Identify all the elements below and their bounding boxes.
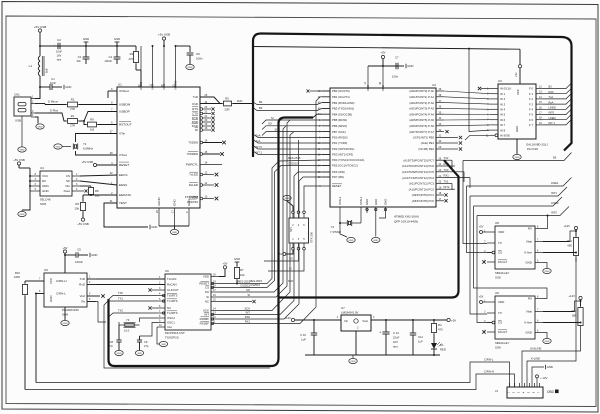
svg-text:GND: GND	[91, 253, 97, 257]
svg-text:IN 8: IN 8	[500, 128, 506, 132]
svg-text:F 7: F 7	[529, 123, 533, 127]
svg-text:C6: C6	[196, 52, 200, 56]
svg-text:CS: CS	[66, 174, 70, 178]
svg-text:LINE0: LINE0	[551, 201, 559, 205]
svg-text:LIN0D: LIN0D	[549, 106, 556, 110]
svg-text:INT 1: INT 1	[549, 121, 556, 125]
svg-text:AGND: AGND	[157, 196, 161, 206]
svg-text:GND: GND	[161, 344, 166, 346]
svg-text:+5v USB: +5v USB	[158, 33, 170, 37]
svg-text:CTS: CTS	[192, 112, 198, 116]
svg-text:16V: 16V	[57, 54, 62, 58]
svg-text:GND: GND	[114, 37, 120, 41]
svg-text:LINE1: LINE1	[551, 181, 559, 185]
svg-text:SO: SO	[246, 288, 250, 292]
svg-text:IN 6: IN 6	[500, 118, 506, 122]
svg-text:GND: GND	[38, 127, 43, 129]
svg-text:R1: R1	[71, 114, 75, 118]
svg-text:Y2: Y2	[331, 225, 335, 229]
svg-text:+5V: +5V	[278, 252, 283, 256]
svg-text:CS2515: CS2515	[240, 284, 250, 288]
svg-text:RX1BF: RX1BF	[200, 322, 210, 326]
svg-text:TX2: TX2	[118, 309, 123, 313]
svg-text:PD3 (INT1/ICP3): PD3 (INT1/ICP3)	[332, 153, 353, 157]
svg-text:VCC: VCC	[516, 89, 520, 95]
svg-text:93LC46: 93LC46	[40, 198, 51, 202]
svg-text:INT0: INT0	[551, 211, 557, 215]
svg-text:K-LINE: K-LINE	[531, 357, 540, 361]
svg-text:GND: GND	[151, 225, 157, 229]
svg-text:R9: R9	[90, 118, 94, 122]
svg-text:XTAL2: XTAL2	[338, 196, 342, 205]
svg-text:STK-200: STK-200	[310, 232, 314, 243]
svg-text:Tx2RTS: Tx2RTS	[167, 311, 178, 315]
svg-text:C7: C7	[395, 56, 399, 60]
svg-text:RESET: RESET	[119, 163, 129, 167]
svg-text:USBDP: USBDP	[119, 110, 130, 114]
svg-text:INT: INT	[204, 313, 209, 317]
svg-text:RxA: RxA	[549, 100, 554, 104]
svg-text:2k2: 2k2	[95, 194, 100, 198]
svg-text:CS2515: CS2515	[288, 162, 298, 166]
svg-text:R10: R10	[15, 271, 21, 275]
svg-text:GND: GND	[65, 85, 71, 89]
svg-text:XTout: XTout	[119, 153, 127, 157]
svg-text:Din: Din	[65, 184, 70, 188]
svg-text:GND: GND	[545, 341, 550, 343]
svg-text:F 2: F 2	[529, 97, 533, 101]
svg-text:(A14/TDO/PCINT14) PC6: (A14/TDO/PCINT14) PC6	[402, 164, 434, 168]
svg-text:tant: tant	[57, 58, 62, 62]
svg-text:TX2: TX2	[444, 156, 449, 160]
svg-text:(A15/TDI/PCINT15) PC7: (A15/TDI/PCINT15) PC7	[403, 158, 434, 162]
svg-text:+12V: +12V	[568, 294, 575, 298]
svg-text:R6: R6	[75, 202, 79, 206]
svg-text:R5: R5	[225, 97, 229, 101]
svg-text:GND: GND	[42, 189, 50, 193]
svg-text:EECS: EECS	[119, 173, 127, 177]
svg-text:RESET: RESET	[332, 184, 342, 188]
svg-text:Y3: Y3	[126, 318, 130, 322]
svg-text:3V3out: 3V3out	[119, 89, 129, 93]
svg-text:QFP 10X10-44(N): QFP 10X10-44(N)	[394, 220, 418, 224]
svg-text:Dout: Dout	[64, 189, 71, 193]
svg-text:100n: 100n	[392, 75, 399, 79]
svg-text:10k: 10k	[240, 273, 245, 277]
svg-text:(A13/TMS/PCINT13) PC5: (A13/TMS/PCINT13) PC5	[402, 170, 434, 174]
svg-text:tant: tant	[393, 345, 398, 349]
svg-text:R7: R7	[240, 268, 244, 272]
svg-text:(AD7/PCINT7) P A7: (AD7/PCINT7) P A7	[409, 130, 434, 134]
svg-text:U1: U1	[118, 83, 122, 87]
svg-text:D1: D1	[440, 343, 444, 347]
svg-text:SO: SO	[289, 257, 293, 261]
svg-text:D Minus: D Minus	[48, 100, 59, 104]
svg-text:Vout: Vout	[362, 319, 368, 323]
svg-text:PWREN: PWREN	[187, 152, 198, 156]
svg-text:LIN/LINE: LIN/LINE	[530, 347, 541, 351]
svg-text:PB2 (RXD1/AIN0): PB2 (RXD1/AIN0)	[332, 101, 354, 105]
svg-text:PWRCTL: PWRCTL	[186, 163, 199, 167]
svg-text:SI: SI	[206, 295, 209, 299]
svg-text:EESK: EESK	[119, 183, 128, 187]
svg-text:100nF: 100nF	[75, 260, 83, 264]
svg-text:TSSOP20: TSSOP20	[165, 336, 179, 340]
svg-text:120R: 120R	[14, 275, 20, 279]
svg-text:RX0BF: RX0BF	[200, 317, 210, 321]
svg-text:TEST: TEST	[119, 201, 127, 205]
svg-text:CN1: CN1	[14, 93, 20, 97]
svg-text:33n: 33n	[77, 59, 82, 63]
svg-text:(AD0/PCINT0) P A0: (AD0/PCINT0) P A0	[409, 89, 434, 93]
svg-text:SO8: SO8	[495, 276, 501, 280]
svg-text:Vin: Vin	[344, 319, 349, 323]
svg-text:16V: 16V	[393, 340, 398, 344]
svg-text:ORG: ORG	[42, 184, 50, 188]
svg-text:GND: GND	[20, 150, 25, 152]
svg-text:470: 470	[438, 328, 443, 332]
svg-text:(AD4/PCINT4) P A4: (AD4/PCINT4) P A4	[409, 112, 434, 116]
svg-text:OSC1: OSC1	[167, 321, 175, 325]
svg-text:C1: C1	[51, 77, 55, 81]
svg-text:U4: U4	[40, 166, 44, 170]
svg-text:LM2940-5.0V: LM2940-5.0V	[341, 311, 358, 315]
svg-text:U7: U7	[341, 306, 345, 310]
svg-text:Vbat: Vbat	[526, 240, 532, 244]
svg-text:CS: CS	[498, 251, 502, 255]
svg-text:GND: GND	[234, 257, 240, 261]
svg-text:XTin: XTin	[119, 132, 126, 136]
svg-text:IN 3: IN 3	[500, 102, 506, 106]
svg-text:MCP2515-I/ST: MCP2515-I/ST	[165, 331, 185, 335]
svg-text:RTS: RTS	[192, 107, 198, 111]
svg-text:GND: GND	[188, 67, 193, 69]
svg-text:F 6: F 6	[529, 118, 533, 122]
svg-text:(OC1B) PE2: (OC1B) PE2	[418, 147, 434, 151]
svg-text:PD1 (TXD0): PD1 (TXD0)	[332, 141, 347, 145]
svg-text:GND: GND	[20, 214, 25, 216]
svg-text:RxA: RxA	[256, 134, 261, 138]
svg-text:GAL16V8D-15LJ: GAL16V8D-15LJ	[526, 143, 548, 147]
svg-text:RX1: RX1	[245, 320, 251, 324]
svg-text:TxLED: TxLED	[189, 173, 198, 177]
svg-text:+5V USB: +5V USB	[34, 25, 46, 29]
svg-text:6u8: 6u8	[45, 68, 49, 73]
svg-text:C2: C2	[57, 38, 61, 42]
svg-text:SI: SI	[271, 116, 274, 120]
svg-text:TX: TX	[498, 311, 502, 315]
svg-text:GND: GND	[285, 198, 290, 200]
svg-text:Tx0RTS: Tx0RTS	[167, 294, 178, 298]
svg-text:PD4 (TOSC1/XCK/OC3A): PD4 (TOSC1/XCK/OC3A)	[332, 158, 364, 162]
svg-text:C5: C5	[77, 248, 81, 252]
svg-text:L1: L1	[29, 64, 33, 68]
svg-text:22R: 22R	[224, 108, 229, 112]
svg-text:U3: U3	[498, 79, 502, 83]
svg-text:B3: B3	[553, 156, 557, 160]
svg-text:27p: 27p	[109, 344, 114, 348]
svg-text:U2: U2	[432, 83, 436, 87]
svg-text:Tx1RTS: Tx1RTS	[167, 299, 178, 303]
svg-text:J1: J1	[495, 389, 499, 393]
svg-text:PD5 (OC1A/TOSC2): PD5 (OC1A/TOSC2)	[332, 164, 358, 168]
svg-text:INT0: INT0	[549, 111, 555, 115]
svg-text:VDD: VDD	[498, 300, 505, 304]
svg-text:GND: GND	[525, 331, 533, 335]
svg-text:OBD: OBD	[547, 390, 555, 394]
svg-text:K-line: K-line	[524, 321, 532, 325]
svg-text:USBDM: USBDM	[119, 103, 131, 107]
svg-text:F 0: F 0	[529, 87, 533, 91]
svg-text:PD0 (RXD0): PD0 (RXD0)	[332, 136, 348, 140]
svg-text:NC: NC	[205, 300, 209, 304]
svg-text:NC: NC	[167, 306, 171, 310]
svg-text:(AD6/PCINT6) P A6: (AD6/PCINT6) P A6	[409, 124, 434, 128]
svg-text:IN 7: IN 7	[500, 123, 506, 127]
svg-text:F 1: F 1	[529, 92, 533, 96]
svg-text:LINE0: LINE0	[549, 116, 557, 120]
svg-text:SI: SI	[247, 293, 250, 297]
svg-text:TX0: TX0	[118, 291, 123, 295]
svg-text:GND: GND	[525, 261, 533, 265]
svg-text:TxA: TxA	[256, 139, 261, 143]
svg-text:CS: CS	[498, 321, 502, 325]
svg-text:SB2411-EY: SB2411-EY	[495, 341, 510, 345]
svg-text:+5V USB: +5V USB	[81, 160, 93, 164]
svg-text:USB: USB	[15, 119, 21, 123]
svg-text:RxD: RxD	[79, 283, 86, 287]
svg-text:CS2515: CS2515	[250, 283, 260, 287]
svg-text:22uF: 22uF	[393, 336, 400, 340]
svg-text:+5V USB: +5V USB	[13, 158, 25, 162]
svg-text:IN 5: IN 5	[500, 113, 506, 117]
svg-text:RX1: RX1	[444, 174, 450, 178]
svg-text:(AD1/PCINT1) P A1: (AD1/PCINT1) P A1	[409, 95, 434, 99]
svg-text:27p: 27p	[144, 344, 149, 348]
svg-text:INT: INT	[246, 311, 251, 315]
svg-text:F 4: F 4	[529, 108, 533, 112]
svg-text:GND: GND	[83, 37, 89, 41]
svg-text:C 10: C 10	[300, 333, 306, 337]
svg-text:10k: 10k	[74, 207, 79, 211]
svg-text:R4: R4	[438, 323, 442, 327]
svg-text:1uF: 1uF	[301, 338, 306, 342]
svg-text:SI: SI	[289, 267, 292, 271]
svg-text:GND: GND	[545, 271, 550, 273]
svg-text:INT1: INT1	[551, 191, 557, 195]
svg-text:RxD: RxD	[549, 90, 554, 94]
svg-text:TxCAN: TxCAN	[167, 277, 176, 281]
svg-text:C/RN-L: C/RN-L	[56, 292, 66, 296]
svg-text:Y1: Y1	[83, 142, 87, 146]
svg-text:C/RN-L: C/RN-L	[484, 358, 494, 362]
svg-text:GND: GND	[351, 361, 356, 363]
svg-text:GND: GND	[49, 296, 53, 302]
svg-text:SO8: SO8	[40, 202, 46, 206]
svg-text:GND: GND	[63, 323, 68, 325]
svg-text:(ICP1/INT2) PE0: (ICP1/INT2) PE0	[413, 136, 434, 140]
svg-text:SCK: SCK	[275, 127, 281, 131]
svg-text:GND: GND	[173, 199, 177, 207]
svg-text:IN 9/OE: IN 9/OE	[500, 134, 510, 138]
svg-text:RI: RI	[195, 128, 198, 132]
svg-text:D Plus: D Plus	[50, 109, 59, 113]
svg-text:GND: GND	[515, 126, 519, 132]
svg-text:+5V: +5V	[380, 51, 385, 55]
svg-text:C11: C11	[418, 335, 423, 339]
svg-text:C/RN-H: C/RN-H	[484, 370, 494, 374]
svg-text:RxD: RxD	[237, 99, 242, 103]
svg-text:VDD: VDD	[498, 230, 505, 234]
svg-text:IN 1: IN 1	[500, 92, 506, 96]
svg-text:(ALE) PE1: (ALE) PE1	[421, 141, 435, 145]
svg-text:10uF: 10uF	[56, 50, 62, 54]
svg-text:FAULT: FAULT	[498, 330, 507, 334]
svg-text:RxD: RxD	[192, 102, 198, 106]
svg-text:SK: SK	[66, 179, 70, 183]
svg-text:RES-2515: RES-2515	[238, 280, 251, 284]
svg-text:RES-2515: RES-2515	[250, 279, 263, 283]
svg-text:PB0 (OC0/T0): PB0 (OC0/T0)	[332, 89, 350, 93]
svg-text:C3: C3	[78, 55, 82, 59]
svg-text:PD2 (INT0/RXD1): PD2 (INT0/RXD1)	[332, 147, 354, 151]
svg-text:+5v: +5v	[514, 72, 518, 77]
svg-text:R8: R8	[95, 189, 99, 193]
svg-text:GND: GND	[365, 199, 369, 205]
svg-text:(A11/PCINT11) PC3: (A11/PCINT11) PC3	[409, 182, 434, 186]
svg-text:K-line: K-line	[524, 251, 532, 255]
svg-text:OSC2: OSC2	[167, 316, 175, 320]
svg-text:TxD: TxD	[80, 277, 86, 281]
svg-text:Vbat: Vbat	[526, 310, 532, 314]
svg-text:RxCAN: RxCAN	[167, 283, 177, 287]
svg-text:+5V: +5V	[451, 319, 456, 323]
svg-text:TX0: TX0	[444, 168, 449, 172]
svg-text:PD7 (RD): PD7 (RD)	[332, 175, 344, 179]
svg-text:GND: GND	[117, 353, 122, 355]
svg-text:TxA: TxA	[549, 95, 554, 99]
svg-text:(AD2/PCINT2) P A2: (AD2/PCINT2) P A2	[409, 101, 434, 105]
svg-text:U5: U5	[44, 268, 48, 272]
svg-text:CLKOUT: CLKOUT	[167, 288, 179, 292]
svg-text:C 12: C 12	[393, 331, 399, 335]
svg-text:U8: U8	[495, 221, 499, 225]
svg-text:GND: GND	[407, 64, 413, 68]
svg-text:EEDATA: EEDATA	[119, 193, 132, 197]
svg-text:VCC: VCC	[42, 174, 49, 178]
svg-text:F 5: F 5	[529, 113, 533, 117]
svg-text:680: 680	[572, 314, 577, 318]
svg-text:TX1: TX1	[444, 179, 449, 183]
svg-text:INT2: INT2	[444, 185, 450, 189]
svg-text:R2: R2	[71, 97, 75, 101]
svg-text:TX1: TX1	[118, 297, 123, 301]
svg-text:GND: GND	[187, 199, 191, 207]
svg-text:680: 680	[568, 244, 573, 248]
svg-text:XTAL1: XTAL1	[359, 196, 363, 205]
svg-text:+5V: +5V	[479, 225, 484, 229]
svg-text:1k5: 1k5	[90, 128, 95, 132]
svg-text:+5V: +5V	[222, 262, 227, 266]
svg-text:GND: GND	[374, 199, 378, 205]
svg-text:100nF: 100nF	[104, 59, 112, 63]
svg-text:B3: B3	[259, 106, 263, 110]
svg-text:27R: 27R	[70, 124, 75, 128]
svg-text:R3: R3	[130, 52, 134, 56]
svg-text:+5V: +5V	[62, 246, 67, 250]
svg-text:GND: GND	[373, 240, 378, 242]
svg-text:VDD: VDD	[203, 275, 209, 279]
svg-text:Rs: Rs	[81, 300, 85, 304]
svg-text:+5V USB: +5V USB	[77, 222, 89, 226]
svg-text:+ 12V: + 12V	[540, 376, 548, 380]
svg-text:CS: CS	[205, 286, 209, 290]
svg-text:GND: GND	[547, 365, 553, 369]
svg-text:SO8: SO8	[495, 346, 501, 350]
svg-text:SCK: SCK	[288, 279, 294, 283]
svg-text:PD6 (WR): PD6 (WR)	[332, 170, 345, 174]
svg-text:PB7 (SCK): PB7 (SCK)	[332, 130, 346, 134]
svg-text:IN 0/CLK: IN 0/CLK	[500, 87, 511, 91]
svg-text:PLCC20: PLCC20	[527, 147, 538, 151]
svg-text:PB3 (TXD1/AIN1): PB3 (TXD1/AIN1)	[332, 107, 354, 111]
svg-text:TxD: TxD	[193, 95, 198, 99]
svg-text:F 3: F 3	[529, 102, 533, 106]
svg-text:1uF: 1uF	[418, 340, 423, 344]
svg-text:PB5 (MOSI): PB5 (MOSI)	[332, 118, 347, 122]
svg-text:GND: GND	[137, 353, 142, 355]
svg-text:RX2: RX2	[444, 162, 450, 166]
svg-text:RX: RX	[528, 227, 532, 231]
svg-text:(AD3/PCINT3) P A3: (AD3/PCINT3) P A3	[409, 107, 434, 111]
svg-text:RED: RED	[440, 348, 446, 352]
svg-text:(A9/PCINT9) PC1: (A9/PCINT9) PC1	[412, 193, 435, 197]
svg-text:C9: C9	[144, 340, 148, 344]
svg-text:PB6 (MISO): PB6 (MISO)	[332, 124, 347, 128]
svg-text:+12V: +12V	[284, 316, 291, 320]
svg-text:GND: GND	[384, 199, 388, 205]
svg-text:PB1 (OC2/T1): PB1 (OC2/T1)	[332, 95, 350, 99]
svg-text:RX0: RX0	[245, 315, 251, 319]
svg-text:C/RN-H: C/RN-H	[56, 279, 67, 283]
svg-text:GND: GND	[515, 157, 520, 159]
svg-text:100n: 100n	[196, 57, 203, 61]
svg-text:RxLED: RxLED	[189, 183, 198, 187]
svg-text:7,3?MHz: 7,3?MHz	[330, 230, 342, 234]
svg-text:C8: C8	[110, 340, 114, 344]
svg-text:Vss: Vss	[167, 325, 172, 329]
svg-text:U9: U9	[495, 291, 499, 295]
svg-text:(A8/PCINT8) PC0: (A8/PCINT8) PC0	[412, 199, 435, 203]
svg-text:VCC: VCC	[49, 278, 53, 284]
svg-text:10nF: 10nF	[50, 81, 56, 85]
svg-text:+5V: +5V	[479, 295, 484, 299]
svg-text:27R: 27R	[70, 107, 75, 111]
svg-text:GND: GND	[56, 147, 61, 149]
svg-text:U6: U6	[165, 269, 169, 273]
svg-text:Vref: Vref	[80, 294, 86, 298]
svg-text:GND: GND	[349, 240, 354, 242]
svg-text:16,0: 16,0	[124, 329, 130, 333]
svg-text:SCK: SCK	[244, 307, 250, 311]
svg-text:GND: GND	[172, 232, 177, 234]
svg-text:FAULT: FAULT	[498, 260, 507, 264]
svg-text:C4: C4	[109, 55, 113, 59]
svg-text:RX: RX	[528, 297, 532, 301]
svg-text:+12V: +12V	[563, 224, 570, 228]
svg-text:SPI: SPI	[289, 227, 293, 232]
svg-text:TX: TX	[498, 241, 502, 245]
